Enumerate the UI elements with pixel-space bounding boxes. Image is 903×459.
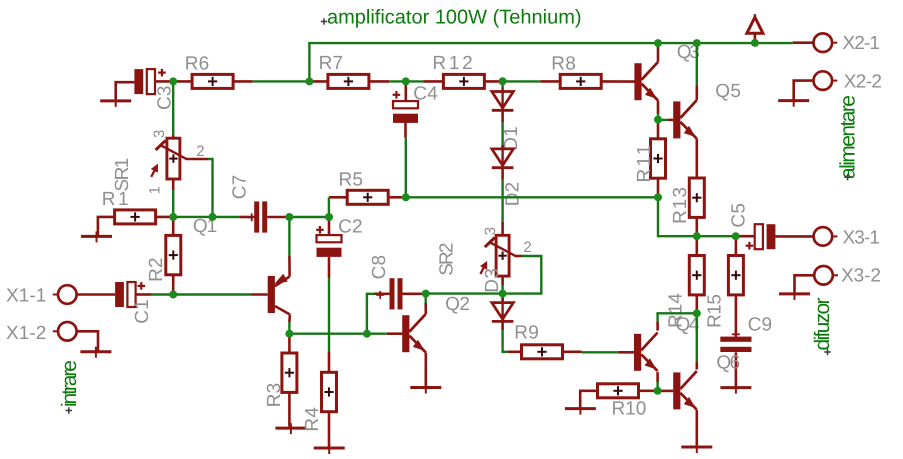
label X3-1 [843, 228, 881, 249]
label R2 [146, 257, 167, 282]
svg-text:R2: R2 [146, 257, 167, 282]
resistor R14 [689, 236, 704, 313]
node SR1 wiper tap [209, 213, 217, 221]
label D2 [503, 182, 524, 207]
node R12-R8-D1 [499, 77, 507, 85]
transistor Q2 [387, 303, 426, 386]
svg-text:R8: R8 [551, 54, 576, 75]
wire C8 branch up [367, 294, 375, 334]
ground at R3 [275, 423, 306, 434]
node R13-R14-out [693, 232, 701, 240]
wire D1 to D2 [501, 110, 504, 149]
net label intrare [58, 360, 81, 414]
wire node to Q1 base [173, 293, 251, 295]
trimmer SR1 [151, 135, 187, 190]
label R15 [705, 294, 726, 328]
label C5 [729, 203, 750, 228]
label C2 [338, 216, 363, 237]
capacitor C9 [720, 330, 751, 352]
svg-text:Q2: Q2 [445, 294, 470, 315]
wire Q4 emitter down [656, 382, 658, 391]
node SR2-D3 [499, 290, 507, 298]
svg-text:SR1: SR1 [112, 158, 133, 192]
trimmer SR2 [480, 222, 516, 285]
ground at Q6 [681, 442, 712, 453]
svg-text:R3: R3 [264, 383, 285, 408]
wire R6 to rail corner [253, 80, 310, 82]
resistor R8 [540, 74, 634, 88]
svg-text:1: 1 [146, 186, 163, 195]
resistor R3 [282, 334, 297, 427]
resistor R6 [173, 74, 252, 88]
label R10 [612, 399, 647, 420]
node Q3e-Q5b-R11 [654, 116, 662, 124]
diode D1 [492, 88, 514, 111]
resistor R1 [115, 210, 174, 224]
svg-text:R10: R10 [612, 399, 647, 420]
wire C3 node to SR1 [172, 81, 174, 135]
svg-text:C8: C8 [369, 255, 390, 280]
svg-text:C2: C2 [338, 216, 363, 237]
node rail-VCC [751, 39, 759, 47]
svg-text:3: 3 [482, 227, 499, 236]
node bootstrap-R11 [654, 193, 662, 201]
node C5-R15 [732, 232, 740, 240]
label R4 [302, 407, 323, 432]
svg-text:C5: C5 [729, 203, 750, 228]
wire Q1c to Q2 base [289, 333, 386, 335]
label R6 [185, 54, 210, 75]
svg-text:R9: R9 [514, 322, 539, 343]
ground at C9 [720, 383, 751, 394]
label C7 [230, 175, 251, 200]
wire R1 node to wiper tap [173, 216, 212, 218]
label R14 [666, 293, 687, 328]
label R9 [514, 322, 539, 343]
label Q2 [445, 294, 470, 315]
wire Q3 emitter to node [657, 113, 659, 120]
svg-text:R11: R11 [634, 145, 655, 183]
connector X2-2 [814, 71, 838, 90]
pin 3 label SR2 [482, 227, 499, 236]
svg-text:difuzor: difuzor [811, 298, 834, 351]
pin 2 label SR1 [196, 143, 205, 160]
ground at X1-2 [80, 347, 111, 358]
node rail-Q5 [693, 39, 701, 47]
capacitor C5 [736, 224, 814, 249]
svg-text:R7: R7 [319, 53, 344, 74]
wire D2 to SR2 [501, 168, 504, 222]
capacitor C2 [316, 218, 341, 278]
ground at Q2 [410, 383, 441, 394]
label R1 [102, 189, 129, 210]
svg-text:R12: R12 [432, 53, 473, 74]
label C3 [154, 85, 175, 110]
label SR1 [112, 158, 133, 192]
capacitor C7 [240, 201, 289, 232]
svg-text:R15: R15 [705, 294, 726, 328]
wire R7 to R12 [389, 80, 423, 82]
svg-text:D3: D3 [482, 268, 503, 293]
svg-text:C7: C7 [230, 175, 251, 200]
node Q1c-R3 [285, 330, 293, 338]
net label alimentare [836, 95, 859, 180]
label R11 [634, 145, 655, 183]
svg-text:2: 2 [523, 239, 532, 256]
label X3-2 [841, 266, 881, 287]
wire C2 to R4 [328, 278, 330, 352]
ground at R10 [565, 404, 596, 415]
svg-text:C4: C4 [413, 84, 438, 105]
label X2-2 [844, 72, 883, 93]
capacitor C1 [115, 282, 152, 307]
label R8 [551, 54, 576, 75]
transistor Q4 [618, 322, 657, 382]
svg-text:X3-1: X3-1 [843, 228, 881, 249]
label R12 [432, 53, 473, 74]
label Q3 [677, 42, 701, 63]
svg-text:R6: R6 [185, 54, 210, 75]
wire Q6 collector up [696, 313, 698, 362]
wire rail to X2-1 pin [793, 41, 814, 44]
wire X1-1 to C1 [77, 293, 115, 296]
resistor R15 [728, 236, 743, 336]
ground at X2-2 [778, 96, 809, 107]
connector X1-2 [53, 322, 77, 341]
label X1-2 [6, 323, 47, 344]
net label difuzor [811, 298, 834, 356]
wire C1 to base node [152, 293, 174, 295]
svg-text:3: 3 [151, 129, 168, 138]
svg-text:intrare: intrare [58, 360, 81, 407]
label Q6 [716, 353, 740, 374]
capacitor C3 [134, 69, 173, 94]
wire VCC rail [309, 43, 793, 81]
svg-text:R4: R4 [302, 407, 323, 432]
resistor R11 [651, 120, 666, 198]
svg-text:X2-2: X2-2 [844, 72, 883, 93]
label R13 [670, 187, 691, 224]
wire SR1 wiper [186, 159, 213, 217]
wire X2-2 to ground [794, 81, 814, 101]
svg-text:D1: D1 [501, 126, 522, 151]
wire SR2 bottom [501, 285, 503, 294]
wire D1 top [501, 81, 503, 88]
wire C8 node to SR2 node [426, 292, 503, 294]
resistor R7 [309, 74, 389, 88]
resistor R12 [423, 74, 502, 88]
wire fb node [289, 216, 329, 218]
connector X2-1 [814, 33, 838, 52]
svg-text:R5: R5 [339, 170, 364, 191]
svg-text:alimentare: alimentare [836, 95, 859, 179]
label R7 [319, 53, 344, 74]
pin 3 label SR1 [151, 129, 168, 138]
wire wiper tap to C7 [213, 216, 241, 219]
node C8-Q2c [422, 290, 430, 298]
wire R12 node to R8 [503, 80, 541, 82]
svg-text:Q5: Q5 [715, 81, 741, 102]
resistor R4 [322, 352, 337, 447]
node C4-bootstrap [402, 193, 410, 201]
pin 1 label SR1 [146, 186, 163, 195]
wire R5 left drop [328, 197, 330, 217]
diode D3 [492, 294, 514, 321]
svg-text:R13: R13 [670, 187, 691, 224]
node fb-R5-C2 [325, 213, 333, 221]
transistor Q6 [658, 362, 697, 445]
wire SR2 wiper [503, 256, 542, 294]
node C8 branch [363, 330, 371, 338]
node rail-Q3 [654, 39, 662, 47]
transistor Q3 [634, 44, 658, 114]
pin 2 label SR2 [523, 239, 532, 256]
label R3 [264, 383, 285, 408]
svg-text:X1-1: X1-1 [6, 285, 47, 306]
wire Q5 collector to rail [696, 43, 698, 86]
wire D3 to R9 [503, 321, 508, 352]
svg-text:X1-2: X1-2 [6, 323, 47, 344]
connector X3-1 [814, 227, 838, 246]
node C7-Q1e-fb [285, 213, 293, 221]
label X1-1 [6, 285, 47, 306]
svg-text:D2: D2 [503, 182, 524, 207]
wire bootstrap down to out [658, 197, 697, 236]
svg-text:X3-2: X3-2 [841, 266, 881, 287]
capacitor C4 [393, 81, 418, 137]
wire R9 to Q4 base [582, 351, 619, 353]
resistor R5 [329, 190, 406, 204]
label C4 [413, 84, 438, 105]
label D1 [501, 126, 522, 151]
label R5 [339, 170, 364, 191]
node R6-R7 tap [305, 77, 313, 85]
wire bootstrap rail [406, 196, 658, 198]
label SR2 [437, 242, 458, 276]
ground at R1 [81, 217, 115, 243]
node R14-Q4Q6 [693, 309, 701, 317]
wire out to C5 [697, 235, 736, 237]
resistor R13 [689, 159, 704, 237]
svg-text:amplificator 100W (Tehnium): amplificator 100W (Tehnium) [327, 6, 582, 28]
connector X1-1 [53, 285, 77, 304]
resistor R10 [580, 384, 657, 407]
capacitor C8 [375, 278, 423, 309]
connector X3-2 [814, 266, 838, 285]
node C3-R6-SR1 [169, 77, 177, 85]
label Q4 [676, 314, 700, 335]
node R7-R12-C4 [402, 77, 410, 85]
resistor R2 [166, 217, 181, 295]
transistor Q1 [252, 256, 290, 322]
svg-text:SR2: SR2 [437, 242, 458, 276]
transistor Q5 [668, 86, 697, 159]
ground at C3 [100, 82, 134, 107]
label Q1 [193, 216, 218, 237]
supply symbol VCC [747, 14, 763, 43]
svg-text:X2-1: X2-1 [843, 33, 881, 54]
node Q4e-R10-Q6b [654, 387, 662, 395]
svg-text:C1: C1 [132, 299, 153, 324]
label C1 [132, 299, 153, 324]
wire X1-2 to ground [77, 331, 98, 351]
wire node to Q5 base [658, 119, 668, 121]
wire Q1 emitter up [288, 217, 290, 256]
label C8 [369, 255, 390, 280]
wire Q1 collector down [288, 322, 290, 334]
wire C9 to ground [735, 352, 738, 386]
ground at R4 [314, 443, 345, 454]
wire SR1 pin1 down [172, 190, 174, 217]
wire Q4 collector up [658, 313, 697, 322]
node R1-SR1-R2 [169, 213, 177, 221]
node C1-R2-Q1b [169, 291, 177, 299]
wire X3-2 to ground [795, 275, 815, 293]
ground at X3-2 [779, 289, 810, 300]
diode D2 [492, 145, 514, 168]
title text [321, 6, 582, 28]
wire Q2 collector up [425, 294, 427, 303]
label X2-1 [843, 33, 881, 54]
resistor R9 [508, 345, 582, 359]
wire C4 to bootstrap [405, 137, 407, 197]
label Q5 [715, 81, 741, 102]
label C9 [748, 315, 773, 336]
svg-text:C9: C9 [748, 315, 773, 336]
label D3 [482, 268, 503, 293]
svg-text:Q6: Q6 [716, 353, 740, 374]
svg-text:2: 2 [196, 143, 205, 160]
